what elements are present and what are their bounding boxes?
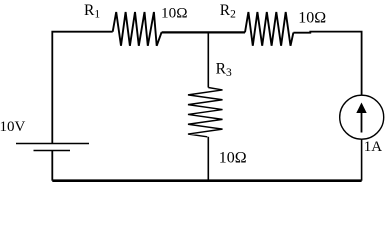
svg-text:10V: 10V	[0, 119, 26, 135]
svg-text:R1: R1	[84, 2, 100, 21]
svg-text:10Ω: 10Ω	[161, 4, 187, 21]
svg-text:10Ω: 10Ω	[298, 9, 326, 26]
svg-text:R3: R3	[216, 60, 232, 79]
svg-text:1A: 1A	[364, 139, 383, 155]
svg-text:R2: R2	[220, 2, 236, 21]
svg-text:10Ω: 10Ω	[219, 149, 247, 166]
